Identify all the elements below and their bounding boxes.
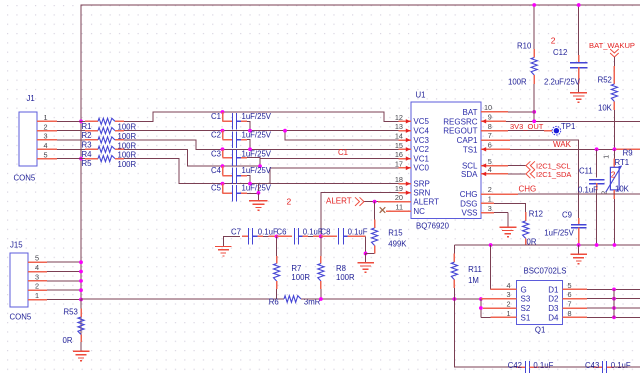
svg-text:REGOUT: REGOUT	[443, 127, 477, 136]
pin 11 NC no-connect	[380, 203, 425, 216]
pin 5 SCL	[462, 157, 508, 171]
node VC4 branch junction	[283, 129, 287, 133]
svg-text:BSC0702LS: BSC0702LS	[524, 267, 567, 276]
wire VSS to ground	[494, 212, 508, 214]
svg-text:R1: R1	[82, 122, 92, 131]
svg-text:R12: R12	[529, 210, 543, 219]
node J1 pin5 junction	[79, 157, 83, 161]
svg-text:9: 9	[488, 113, 492, 122]
node cell junction	[248, 182, 252, 186]
svg-text:100R: 100R	[336, 273, 355, 282]
svg-text:1M: 1M	[468, 276, 479, 285]
wire C2 bottom to next cell	[247, 140, 250, 150]
wire DSG net to R12	[494, 203, 526, 212]
svg-text:1: 1	[488, 195, 492, 204]
svg-text:G: G	[521, 285, 527, 294]
pin 18 SRP	[395, 175, 430, 188]
svg-text:NC: NC	[413, 207, 425, 216]
svg-text:C1: C1	[338, 148, 348, 157]
svg-text:1uF/25V: 1uF/25V	[242, 112, 272, 121]
svg-text:Q1: Q1	[535, 326, 545, 335]
svg-text:J1: J1	[27, 94, 35, 103]
pin 15 VC2	[395, 141, 430, 154]
svg-text:2: 2	[551, 36, 556, 46]
capacitor C9 1uF/25V	[544, 210, 586, 245]
svg-text:1: 1	[44, 113, 48, 122]
svg-text:1uF/25V: 1uF/25V	[242, 166, 272, 175]
wire 3V3_OUT net	[508, 130, 544, 132]
svg-text:0.1uF: 0.1uF	[578, 185, 598, 194]
ground below R53	[73, 342, 90, 361]
svg-text:ALERT: ALERT	[326, 196, 352, 205]
svg-text:100R: 100R	[291, 273, 310, 282]
resistor R5 100R	[82, 156, 137, 169]
svg-text:BAT_WAKUP: BAT_WAKUP	[589, 41, 635, 50]
svg-text:3: 3	[506, 290, 510, 299]
svg-text:VC4: VC4	[413, 127, 429, 136]
capacitor C3 1uF/25V	[211, 147, 272, 165]
resistor R1 100R	[82, 118, 137, 131]
svg-text:RT1: RT1	[615, 158, 630, 167]
svg-text:S1: S1	[521, 313, 531, 322]
svg-text:100R: 100R	[118, 160, 137, 169]
svg-text:CAP1: CAP1	[457, 136, 478, 145]
svg-text:2: 2	[611, 169, 616, 179]
svg-text:VC2: VC2	[413, 145, 429, 154]
svg-text:C2: C2	[211, 131, 221, 140]
node gate column	[489, 243, 493, 247]
svg-text:R4: R4	[82, 150, 93, 159]
svg-text:WAK: WAK	[553, 140, 572, 149]
svg-text:1uF/25V: 1uF/25V	[544, 229, 574, 238]
node J1 pin1 junction	[79, 119, 83, 123]
svg-text:11: 11	[395, 203, 403, 212]
svg-text:7: 7	[488, 131, 492, 140]
wire C5 to ground	[247, 192, 258, 194]
svg-text:C8: C8	[321, 227, 331, 236]
capacitor C1 1uF/25V	[211, 110, 272, 130]
resistor R52 10K	[598, 57, 618, 149]
svg-text:VSS: VSS	[461, 209, 477, 218]
svg-text:R52: R52	[598, 75, 612, 84]
svg-text:VC1: VC1	[413, 154, 429, 163]
svg-text:ALERT: ALERT	[413, 197, 439, 206]
svg-text:TP1: TP1	[561, 122, 575, 131]
pin 17 VC0	[395, 159, 430, 172]
node SRN C8	[319, 235, 323, 239]
wire VC5 net R1 to C1 and U1 pin12	[124, 112, 399, 121]
svg-text:4: 4	[488, 165, 492, 174]
svg-text:6: 6	[488, 141, 492, 150]
svg-text:100R: 100R	[508, 78, 527, 87]
svg-text:8: 8	[488, 122, 492, 131]
resistor R11 1M	[451, 245, 482, 299]
resistor R4 100R	[82, 146, 137, 159]
svg-text:C12: C12	[553, 48, 567, 57]
ground below C5	[249, 193, 268, 210]
svg-text:SRN: SRN	[413, 189, 430, 198]
wire to edge	[614, 366, 640, 368]
svg-text:17: 17	[395, 159, 403, 168]
pin 16 VC1	[395, 150, 430, 163]
svg-text:R7: R7	[291, 264, 301, 273]
pin 19 SRN	[395, 184, 431, 197]
svg-text:0.1uF: 0.1uF	[348, 227, 368, 236]
svg-text:5: 5	[568, 281, 572, 290]
capacitor C4 1uF/25V	[211, 164, 272, 184]
wire tap to U1 pin17	[270, 168, 399, 184]
wire pack- rail	[81, 298, 284, 300]
capacitor C2 1uF/25V	[211, 129, 272, 148]
wire DSG gate net	[454, 244, 640, 246]
wire VC0/SRP net C5 row to U1 pin18	[223, 183, 399, 185]
svg-text:VC0: VC0	[413, 164, 429, 173]
svg-text:R2: R2	[82, 131, 92, 140]
wire pack- rail right	[301, 298, 481, 300]
svg-text:CHG: CHG	[460, 190, 478, 199]
svg-text:REGSRC: REGSRC	[443, 117, 477, 126]
thermistor RT1 10K	[602, 149, 630, 245]
capacitor C8 0.1uF	[321, 227, 368, 244]
svg-text:1: 1	[506, 309, 510, 318]
resistor R3 100R	[82, 137, 137, 150]
wire C6-C8	[308, 235, 313, 237]
wire SRN net	[321, 193, 399, 237]
svg-text:J15: J15	[10, 241, 23, 250]
svg-text:5: 5	[44, 150, 48, 159]
svg-text:20: 20	[395, 193, 403, 202]
wire C4 bottom to next cell	[247, 176, 250, 184]
svg-text:D2: D2	[548, 295, 559, 304]
transistor Q1 BSC0702LS	[517, 267, 567, 335]
pin 1 S1	[506, 309, 530, 323]
wire C1 bottom to next cell	[247, 121, 250, 130]
svg-text:BQ76920: BQ76920	[416, 221, 450, 230]
svg-text:4: 4	[35, 263, 39, 272]
wire top rail B+	[81, 5, 640, 341]
wire VC2 net R4 to C4 row	[124, 149, 399, 166]
wire S3 pin	[481, 298, 517, 300]
capacitor C7 0.1uF	[231, 227, 278, 244]
svg-text:CHG: CHG	[519, 184, 537, 193]
capacitor C11 0.1uF	[578, 149, 604, 245]
svg-text:2: 2	[44, 122, 48, 131]
ground VSS	[499, 213, 516, 237]
svg-text:C7: C7	[231, 227, 241, 236]
pin 9 REGSRC	[443, 113, 506, 127]
svg-text:8: 8	[568, 309, 572, 318]
wire SDA net	[508, 173, 526, 175]
node rail C12	[577, 3, 581, 7]
node cell junction	[248, 147, 252, 151]
node R7 top	[275, 235, 279, 239]
svg-text:U1: U1	[416, 91, 426, 100]
svg-text:10: 10	[484, 103, 492, 112]
svg-text:12: 12	[395, 113, 403, 122]
svg-text:3: 3	[488, 204, 492, 213]
svg-text:18: 18	[395, 175, 403, 184]
svg-text:2: 2	[35, 282, 39, 291]
svg-text:2: 2	[488, 185, 492, 194]
svg-text:R53: R53	[64, 308, 78, 317]
wire VC1 net R5 to C5 row	[124, 159, 223, 184]
op-amp U1 BQ76920 AFE IC	[411, 91, 481, 231]
pin 20 ALERT	[378, 193, 439, 206]
svg-text:VC3: VC3	[413, 136, 429, 145]
svg-text:1uF/25V: 1uF/25V	[242, 149, 272, 158]
svg-text:R3: R3	[82, 140, 92, 149]
node R11 bottom	[453, 297, 457, 301]
wire CHG net	[518, 193, 640, 195]
resistor R10 100R	[508, 5, 537, 121]
capacitor C12 2.2uF/25V	[544, 5, 587, 87]
svg-text:S2: S2	[521, 304, 531, 313]
node cell junction	[248, 129, 252, 133]
svg-text:C11: C11	[579, 167, 593, 176]
wire BAT pin10 to R10	[508, 111, 534, 113]
svg-text:VC5: VC5	[413, 117, 429, 126]
wire S2 S1 branch	[479, 299, 517, 317]
svg-text:0R: 0R	[63, 336, 73, 345]
connector J1	[14, 94, 86, 183]
wire drain link	[613, 289, 615, 317]
node ALERT R15	[373, 200, 377, 204]
pin 4 G	[506, 281, 526, 295]
pin 14 VC3	[395, 132, 430, 145]
svg-text:3V3_OUT: 3V3_OUT	[510, 122, 544, 131]
wire C7-C6	[263, 235, 269, 237]
svg-text:S3: S3	[521, 295, 531, 304]
wire TS1 WAK net	[510, 148, 614, 150]
svg-text:3: 3	[44, 132, 48, 141]
pin 12 VC5	[395, 113, 430, 126]
wire branch to U1 pin14	[285, 131, 399, 140]
connector J15	[10, 241, 83, 322]
svg-text:2: 2	[506, 300, 510, 309]
resistor R6 3mR shunt	[269, 296, 321, 307]
svg-text:5: 5	[35, 254, 39, 263]
svg-text:13: 13	[395, 122, 403, 131]
node S1 branch	[479, 297, 483, 301]
svg-text:1uF/25V: 1uF/25V	[242, 131, 272, 140]
svg-text:C5: C5	[211, 184, 222, 193]
svg-text:I2C1_SDA: I2C1_SDA	[536, 170, 571, 179]
node RT1 bottom	[613, 243, 617, 247]
node SRP/C5 junction	[257, 191, 261, 195]
svg-text:499K: 499K	[388, 239, 407, 248]
port BAT_WAKUP	[589, 41, 635, 57]
svg-text:SRP: SRP	[413, 180, 429, 189]
svg-text:1: 1	[604, 155, 611, 159]
pin 8 REGOUT	[443, 122, 508, 136]
svg-text:14: 14	[395, 132, 403, 141]
wire gate to Q1	[491, 245, 517, 289]
wire snubber rail	[454, 299, 517, 367]
svg-text:7: 7	[568, 300, 572, 309]
wire SRP drop	[257, 184, 259, 194]
ground below C12	[570, 83, 587, 102]
pin 2 CHG	[460, 185, 518, 199]
ground mid	[570, 245, 587, 264]
svg-text:16: 16	[395, 150, 403, 159]
ground below R15	[357, 253, 374, 272]
pin 13 VC4	[395, 122, 430, 135]
svg-text:R11: R11	[468, 265, 482, 274]
svg-text:6: 6	[568, 290, 572, 299]
resistor R12 0R	[523, 210, 543, 247]
resistor R15 499K	[366, 202, 408, 254]
wire ALERT net	[364, 201, 380, 203]
svg-text:2.2uF/25V: 2.2uF/25V	[544, 78, 581, 87]
svg-text:C42: C42	[508, 361, 522, 370]
wire between C42 C43	[538, 366, 594, 368]
svg-text:0.1uF: 0.1uF	[611, 361, 631, 370]
resistor R53 0R	[63, 299, 85, 345]
svg-text:4: 4	[506, 281, 510, 290]
svg-text:CON5: CON5	[10, 313, 32, 322]
svg-text:C4: C4	[211, 166, 222, 175]
wire VC3 net R3 to C3 row and U1 pin15	[124, 140, 399, 149]
node R8 top	[319, 235, 323, 239]
svg-text:R9: R9	[623, 149, 633, 158]
svg-text:0.1uF: 0.1uF	[533, 361, 553, 370]
svg-text:C43: C43	[585, 361, 599, 370]
node rail R10	[532, 3, 536, 7]
wire SCL net	[508, 165, 526, 167]
test point TP1	[552, 122, 575, 135]
wire VC4 net R2 to C2 row and U1 pin13	[124, 130, 399, 132]
wire CAP1 net to C9	[510, 140, 579, 218]
svg-text:R8: R8	[336, 264, 346, 273]
pin 3 S3	[506, 290, 530, 304]
svg-text:C1: C1	[211, 112, 221, 121]
node BAT junction	[532, 110, 536, 114]
pin 6 D2	[548, 290, 640, 304]
pin 7 D3	[548, 300, 640, 314]
wire REGSRC net	[506, 120, 640, 122]
node cell junction	[258, 164, 262, 168]
capacitor C43 0.1uF	[585, 361, 631, 373]
harness entry ALERT	[326, 196, 364, 206]
svg-text:10K: 10K	[598, 104, 613, 113]
pin 5 D1	[548, 281, 640, 295]
pin 4 SDA	[461, 165, 508, 179]
pin 6 TS1	[463, 141, 510, 155]
wire C3 bottom to next cell	[247, 158, 260, 167]
svg-text:D1: D1	[548, 285, 559, 294]
node TS1 C11	[595, 147, 599, 151]
node R8 bottom	[319, 297, 323, 301]
svg-text:BAT: BAT	[463, 108, 478, 117]
pin 2 S2	[506, 300, 530, 314]
svg-text:10K: 10K	[615, 185, 630, 194]
node C11 bottom	[595, 243, 599, 247]
resistor R7 100R	[274, 236, 311, 299]
node TS1 RT1	[613, 147, 617, 151]
node REGSRC junction	[532, 119, 536, 123]
pin 10 BAT	[463, 103, 508, 117]
svg-text:R5: R5	[82, 159, 93, 168]
svg-text:SDA: SDA	[461, 170, 478, 179]
capacitor C5 1uF/25V	[211, 182, 272, 202]
svg-text:R15: R15	[388, 228, 403, 237]
svg-text:TS1: TS1	[463, 145, 478, 154]
pin 7 CAP1	[457, 131, 510, 145]
svg-text:15: 15	[395, 141, 403, 150]
svg-text:1uF/25V: 1uF/25V	[242, 184, 272, 193]
svg-text:R10: R10	[517, 42, 532, 51]
svg-text:D3: D3	[548, 304, 559, 313]
resistor R2 100R	[82, 128, 137, 141]
svg-text:4: 4	[44, 141, 48, 150]
node R15 bottom junction	[364, 252, 368, 256]
svg-text:3: 3	[35, 272, 39, 281]
node C9 bottom	[577, 243, 581, 247]
svg-text:C9: C9	[562, 210, 572, 219]
svg-text:C6: C6	[277, 227, 287, 236]
svg-text:DSG: DSG	[460, 199, 477, 208]
pin 1 DSG	[460, 195, 494, 209]
harness entry I2C1_SDA	[526, 170, 572, 180]
svg-text:19: 19	[395, 184, 403, 193]
capacitor C6 0.1uF	[277, 227, 323, 244]
pin R9 left pin	[614, 148, 640, 150]
svg-text:2: 2	[287, 197, 292, 207]
resistor R8 100R	[318, 236, 355, 299]
svg-text:1: 1	[35, 291, 39, 300]
svg-text:0.1uF: 0.1uF	[258, 227, 278, 236]
ground C7 left	[215, 236, 240, 256]
pin 8 D4	[548, 309, 640, 323]
capacitor C42 0.1uF	[508, 361, 554, 373]
harness entry I2C1_SCL	[526, 161, 571, 170]
svg-text:C3: C3	[211, 149, 221, 158]
svg-text:CON5: CON5	[14, 174, 36, 183]
svg-text:D4: D4	[548, 313, 559, 322]
wire C8 to R15 bottom	[358, 235, 366, 237]
pin 3 VSS	[461, 204, 494, 218]
svg-text:R6: R6	[269, 298, 279, 307]
